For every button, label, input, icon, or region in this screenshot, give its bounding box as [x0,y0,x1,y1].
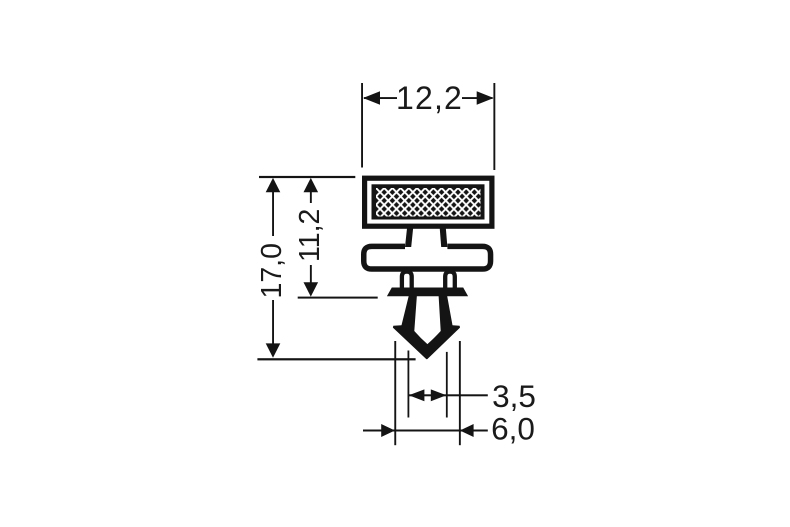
dim 11,2 arrow down [304,282,319,296]
dim 12,2 arrow right [477,91,494,104]
dim 12,2 line right segment [462,97,493,99]
dim 3,5 arrow right [431,389,447,401]
ext line 6,0 outer right [459,341,461,445]
dim 11,2 line upper segment [310,191,312,203]
dim 11,2 line lower segment [310,265,312,283]
bottom horizontal extension line [257,358,415,360]
svg-text:12,2: 12,2 [396,80,463,116]
svg-text:3,5: 3,5 [492,378,536,414]
dim 11,2 arrow up [304,178,319,192]
top horizontal extension line [259,176,355,178]
dim 17,0 arrow up [266,178,281,192]
magnet housing outer frame [362,176,495,229]
svg-text:11,2: 11,2 [294,209,326,262]
dim 17,0 line upper segment [272,191,274,236]
ext line 3,5 inner right [446,352,448,418]
dim 6,0 arrow left [381,424,395,437]
dim 12,2 line left segment [364,97,397,99]
dim 3,5 line [408,394,487,396]
T-bar foot [387,288,468,297]
dim 12,2 arrow left [363,91,380,104]
dim 17,0 arrow down [266,343,281,357]
magnet insert crosshatch [372,184,485,219]
bulge wing outline [364,246,491,269]
neck wall left [405,227,413,248]
svg-text:6,0: 6,0 [491,410,535,446]
ext line 3,5 inner left [408,351,410,418]
dim 3,5 arrow left [409,389,425,401]
dim 12,2 extension line right [493,83,495,170]
svg-text:17,0: 17,0 [256,243,288,298]
arch left [402,272,412,294]
mid horizontal extension line [298,297,378,299]
neck wall right [440,227,448,248]
arch right [445,272,455,294]
dart barb [393,294,460,359]
dim 17,0 line lower segment [272,300,274,345]
dim 6,0 line [363,430,488,432]
dim 6,0 arrow right [460,424,474,437]
ext line 6,0 outer left [394,341,396,445]
dim 12,2 extension line left [361,83,363,168]
